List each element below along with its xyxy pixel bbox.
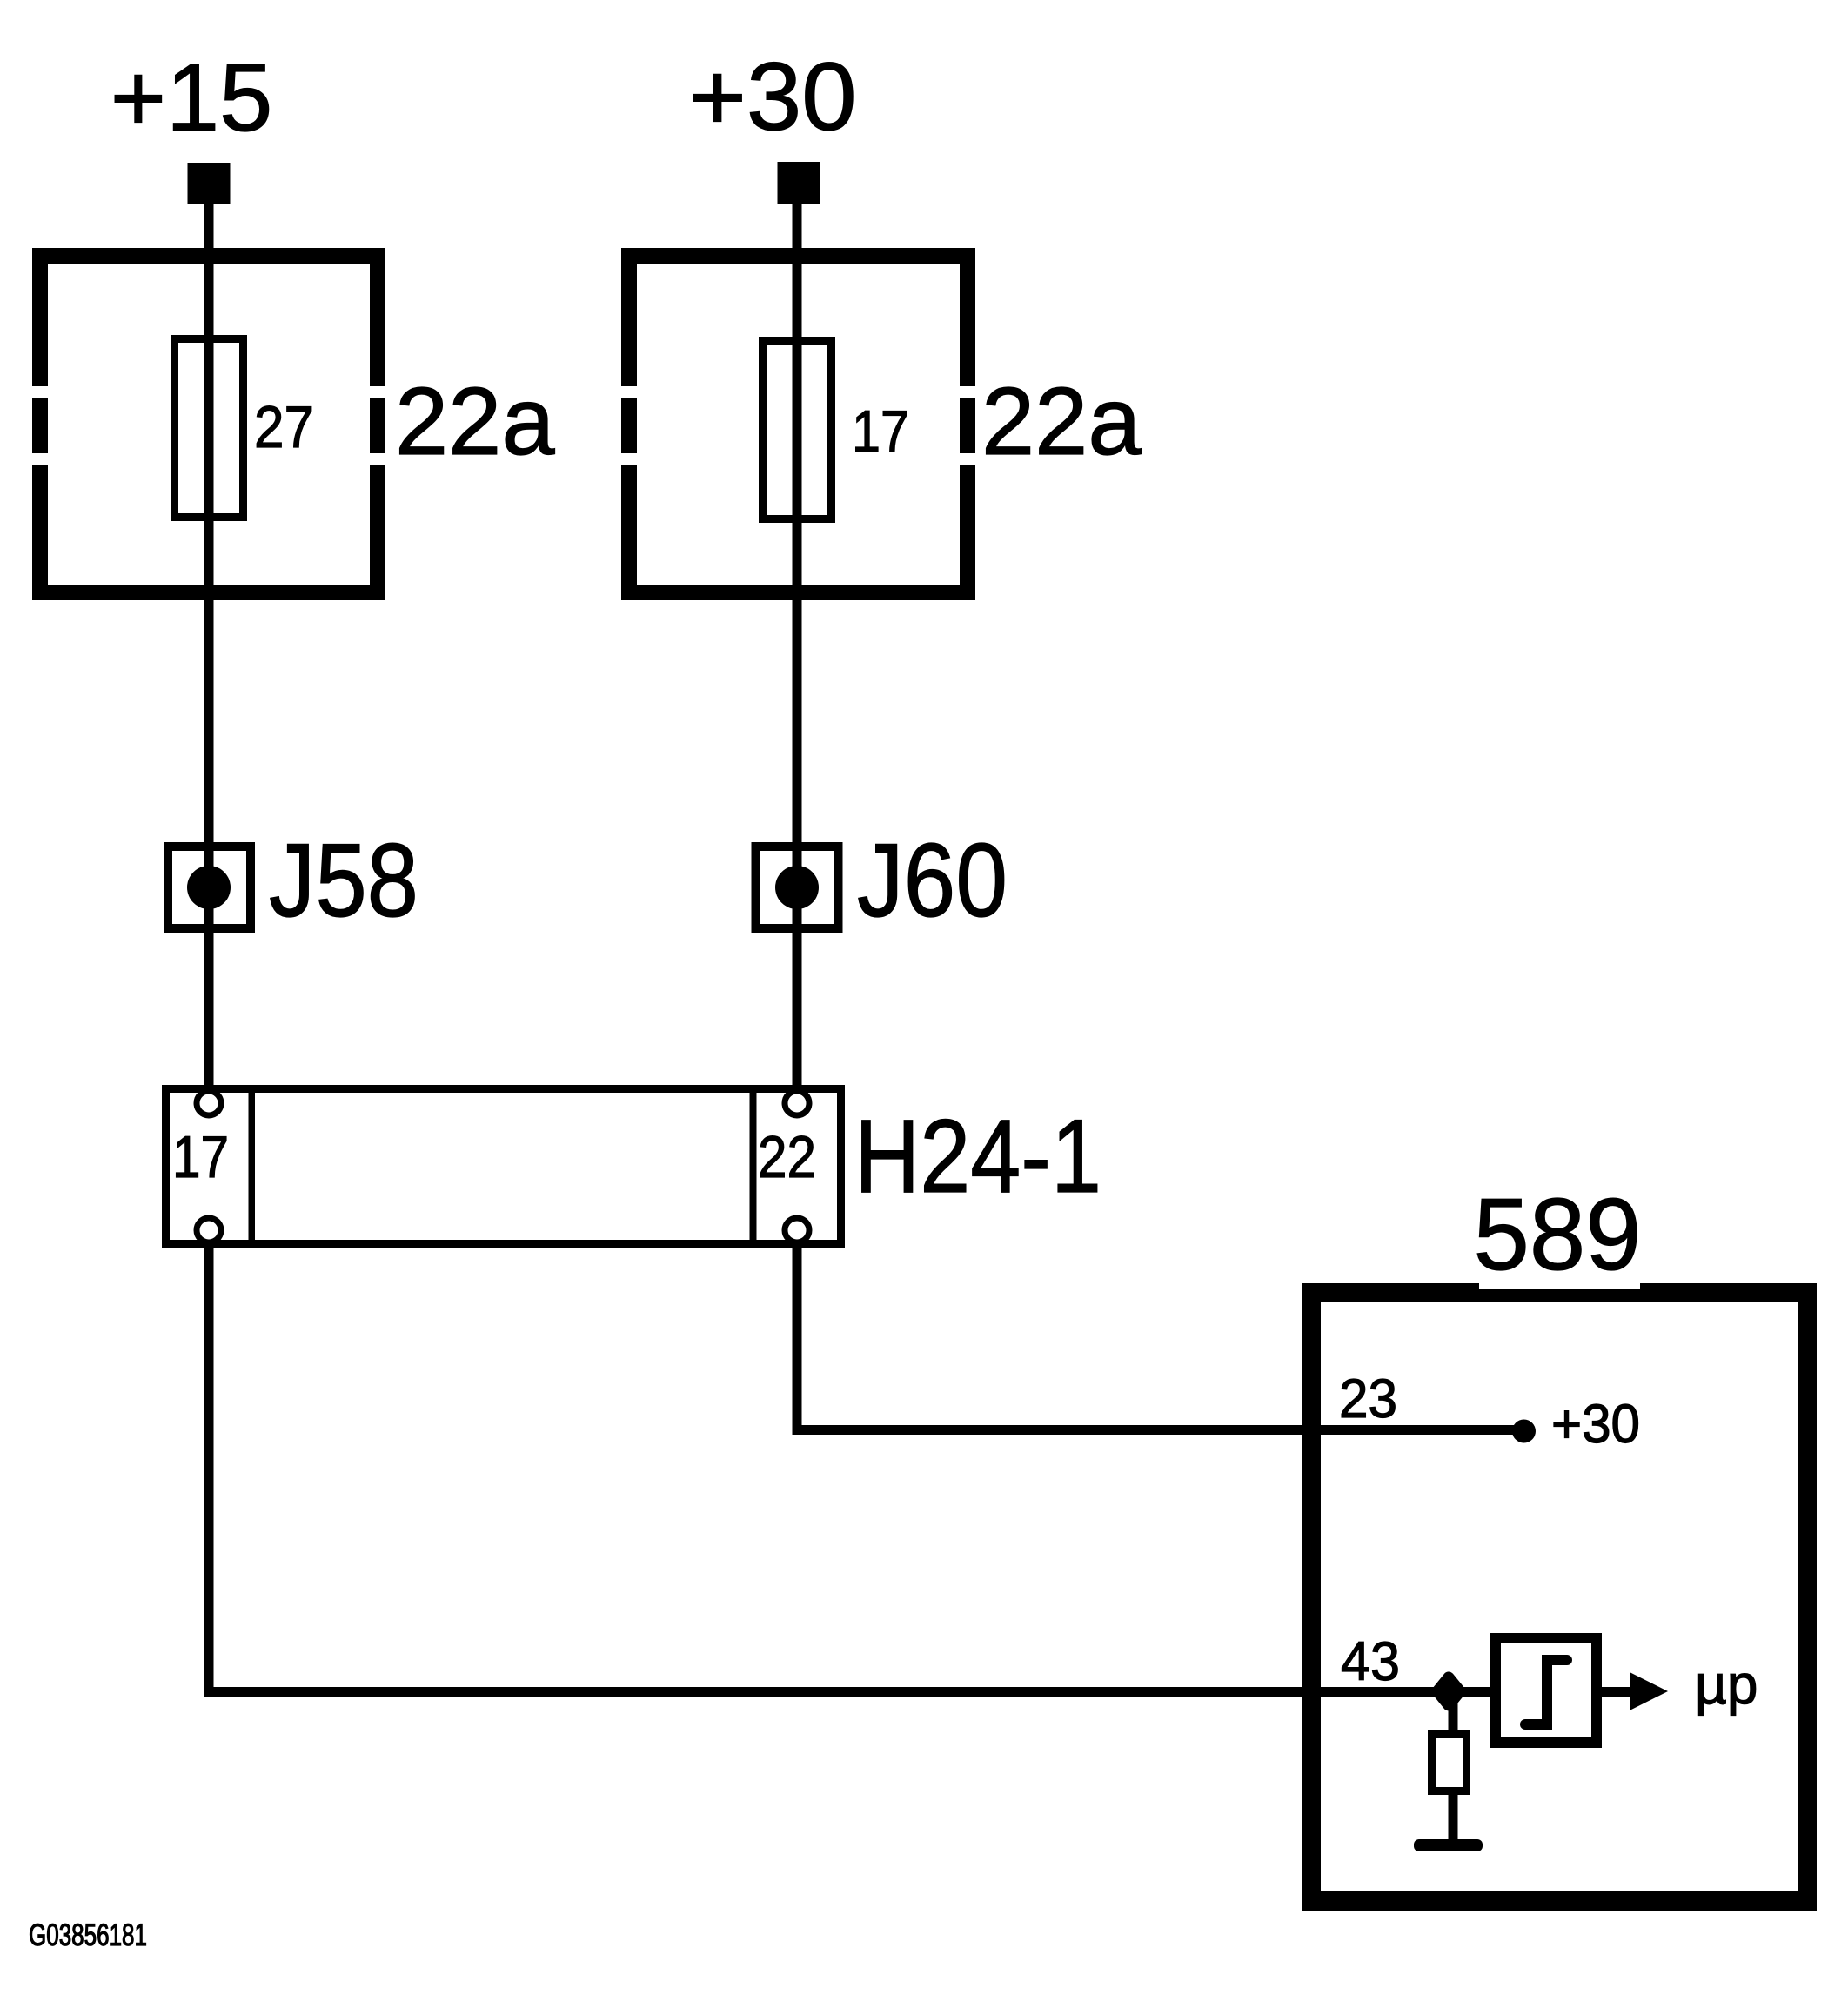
resistor R: [1432, 1735, 1467, 1791]
svg-text:J60: J60: [857, 822, 1008, 939]
svg-text:+15: +15: [110, 44, 273, 151]
resistor stub bottom: [1449, 1795, 1458, 1839]
wire +30 to H24-1 pin 22: [793, 200, 802, 1103]
ground: [1414, 1839, 1483, 1851]
schmitt trigger U1: [1496, 1638, 1597, 1743]
fuse holder box 22a (right): [621, 248, 975, 600]
svg-text:µp: µp: [1695, 1653, 1758, 1716]
junction J58: [168, 847, 251, 928]
fuse 17 element: [763, 341, 832, 519]
svg-text:43: 43: [1341, 1631, 1400, 1692]
svg-text:22a: 22a: [981, 368, 1142, 475]
terminal +30: [778, 162, 820, 204]
svg-text:J58: J58: [269, 822, 418, 939]
resistor stub top: [1449, 1703, 1458, 1732]
svg-text:+30: +30: [1551, 1394, 1640, 1455]
svg-text:G03856181: G03856181: [29, 1918, 147, 1952]
pin circle H24-1 17 top: [197, 1091, 221, 1115]
svg-text:+30: +30: [689, 44, 857, 151]
wire H24-1 pin 22 down: [793, 1241, 802, 1435]
svg-text:22: 22: [758, 1124, 816, 1190]
pin circle H24-1 17 bottom: [197, 1218, 221, 1242]
svg-text:H24-1: H24-1: [854, 1098, 1101, 1215]
svg-text:27: 27: [254, 394, 314, 460]
fuse holder box 22a (left): [32, 248, 385, 600]
wire to module pin 23: [793, 1425, 1524, 1435]
control module 589 box: [1311, 1293, 1807, 1901]
pin circle H24-1 22 bottom: [785, 1218, 809, 1242]
wire +15 to H24-1 pin 17: [204, 200, 214, 1103]
fuse 27 element: [175, 339, 244, 518]
arrow to microprocessor: [1630, 1672, 1668, 1710]
wire H24-1 pin 17 down: [204, 1241, 214, 1697]
junction J60: [756, 847, 839, 928]
svg-text:23: 23: [1339, 1369, 1397, 1429]
connector H24-1 body: [166, 1088, 841, 1244]
junction node pin 43: [1437, 1677, 1460, 1705]
wire schmitt output: [1597, 1687, 1631, 1697]
svg-text:17: 17: [852, 398, 909, 465]
svg-text:17: 17: [172, 1124, 229, 1190]
wire to module pin 43: [204, 1687, 1491, 1697]
pin circle H24-1 22 top: [785, 1091, 809, 1115]
notch over top border: [1479, 1283, 1640, 1289]
node +30 dot: [1512, 1420, 1536, 1443]
svg-text:589: 589: [1474, 1177, 1642, 1291]
terminal +15: [188, 163, 231, 204]
svg-text:22a: 22a: [395, 368, 555, 475]
